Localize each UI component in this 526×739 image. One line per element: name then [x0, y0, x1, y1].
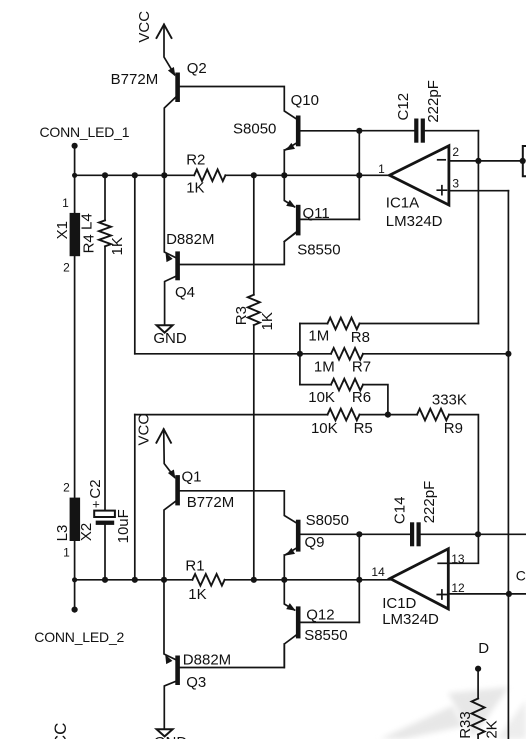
node CONN_LED_1: [40, 124, 130, 213]
ground GND (Q3 collector): [154, 729, 188, 739]
capacitor C12 222pF: [359, 80, 478, 143]
label Q2: [187, 60, 207, 77]
wire pin13 to C14 row: [448, 534, 478, 563]
junction dots on bottom bus: [72, 577, 362, 583]
wire R8/R6 left column: [299, 324, 301, 385]
wire Q10 base link column: [356, 128, 362, 220]
svg-text:12: 12: [451, 581, 465, 595]
svg-text:1: 1: [63, 545, 70, 559]
resistor R2 1K: [186, 152, 225, 197]
label IC1A LM324D: [386, 194, 443, 229]
svg-text:1K: 1K: [109, 237, 126, 255]
pin 3 (IC1A +): [452, 176, 459, 190]
wire pin3 row: [449, 190, 509, 192]
transistor Q10 (S8050 NPN): [284, 116, 359, 176]
connector (right edge, pin2 net): [523, 146, 526, 176]
svg-text:S8550: S8550: [304, 627, 347, 644]
transistor Q3 (D882M NPN): [164, 580, 284, 729]
svg-text:2: 2: [63, 481, 70, 495]
ground GND (Q4 collector): [153, 325, 187, 347]
svg-text:R5: R5: [354, 420, 373, 437]
svg-text:Q9: Q9: [305, 534, 325, 551]
label D882M (Q4): [166, 231, 214, 248]
svg-text:Q3: Q3: [186, 674, 206, 691]
wire C12 to R8 column: [477, 131, 479, 324]
wire Q2 base to Q10 collector: [180, 87, 296, 119]
svg-text:1M: 1M: [308, 328, 329, 345]
pin 14 (IC1D out): [371, 565, 385, 579]
svg-text:14: 14: [371, 565, 385, 579]
svg-text:R3: R3: [233, 306, 250, 325]
wire R7 row: [135, 351, 512, 357]
svg-text:1: 1: [378, 162, 385, 176]
svg-text:CONN_LED_1: CONN_LED_1: [40, 124, 130, 140]
svg-text:10K: 10K: [311, 420, 338, 437]
label B772M (Q1): [187, 494, 235, 511]
svg-text:IC1D: IC1D: [382, 595, 416, 612]
svg-text:Q2: Q2: [187, 60, 207, 77]
transistor Q12 (S8550 PNP): [284, 580, 359, 668]
transistor Q2 (B772M PNP): [164, 67, 180, 175]
label S8550 (Q11): [297, 242, 340, 259]
svg-text:VCC: VCC: [135, 414, 152, 446]
net label C: [516, 568, 526, 584]
svg-text:S8050: S8050: [306, 512, 349, 529]
svg-text:X2: X2: [78, 523, 95, 541]
resistor R7 1M: [314, 348, 371, 376]
svg-text:S8550: S8550: [297, 242, 340, 259]
svg-text:GND: GND: [154, 734, 188, 739]
capacitor C14 222pF: [359, 481, 526, 547]
svg-text:R6: R6: [352, 389, 371, 406]
svg-text:B772M: B772M: [111, 71, 159, 88]
pin 2 (IC1A -): [452, 145, 459, 159]
capacitor C2 10uF (polarized): [87, 479, 132, 579]
svg-text:L3: L3: [54, 525, 71, 542]
label Q3: [186, 674, 206, 691]
svg-text:C12: C12: [395, 93, 412, 121]
op-amp U IC1D LM324D: [390, 549, 448, 609]
svg-text:2K: 2K: [483, 720, 500, 738]
pin 12 (IC1D +): [451, 581, 465, 595]
connector X2 (L3): [54, 481, 95, 560]
label S8050 (Q10): [233, 120, 276, 137]
power VCC (lower): [135, 414, 174, 477]
svg-text:1M: 1M: [314, 359, 335, 376]
resistor R9 333K: [388, 391, 479, 534]
resistor R1 1K: [185, 558, 224, 604]
wire link column (R5 row to bottom bus): [134, 415, 136, 580]
label Q4: [175, 284, 195, 301]
svg-text:10K: 10K: [308, 389, 335, 406]
label Q1: [182, 469, 202, 486]
wire Q9 base link column: [356, 531, 362, 622]
svg-text:Q11: Q11: [303, 205, 330, 222]
pin 13 (IC1D -): [451, 552, 465, 566]
wire bottom bus (net at y=580): [75, 579, 390, 581]
svg-text:D882M: D882M: [183, 652, 231, 669]
svg-text:L4: L4: [79, 213, 96, 230]
svg-text:1: 1: [62, 196, 69, 210]
resistor R4 1K: [80, 175, 126, 510]
connector X1 (L4): [54, 196, 96, 274]
label B772M (Q2): [111, 71, 159, 88]
svg-text:X1: X1: [54, 221, 71, 239]
svg-text:LM324D: LM324D: [382, 611, 439, 628]
svg-text:R8: R8: [351, 329, 370, 346]
svg-text:C: C: [516, 568, 526, 584]
svg-text:R7: R7: [352, 359, 371, 376]
svg-text:VCC: VCC: [51, 723, 70, 739]
label Q12: [306, 606, 334, 623]
svg-text:333K: 333K: [432, 391, 467, 408]
label D882M (Q3): [183, 652, 231, 669]
svg-text:GND: GND: [153, 330, 187, 347]
svg-text:222pF: 222pF: [425, 80, 442, 123]
wire pin12 row: [448, 591, 526, 597]
svg-text:C2: C2: [87, 479, 104, 498]
svg-text:B772M: B772M: [187, 494, 235, 511]
op-amp U IC1A LM324D: [390, 146, 449, 205]
transistor Q9 (S8050 NPN): [284, 520, 359, 580]
node D: [475, 640, 489, 698]
pin 1 (IC1A out): [378, 162, 385, 176]
label IC1D LM324D: [382, 595, 439, 628]
svg-text:R4: R4: [80, 234, 97, 253]
svg-text:R9: R9: [444, 420, 463, 437]
resistor R8 1M: [300, 318, 479, 346]
junction dots on top bus: [72, 172, 362, 178]
svg-text:222pF: 222pF: [421, 481, 438, 524]
wire X1 to X2: [74, 256, 76, 497]
svg-text:2: 2: [452, 145, 459, 159]
svg-text:LM324D: LM324D: [386, 213, 443, 230]
label S8550 (Q12): [304, 627, 347, 644]
resistor R6 10K: [300, 379, 388, 415]
label Q10: [291, 92, 319, 109]
resistor R33 2K: [457, 699, 501, 739]
svg-text:2: 2: [63, 260, 70, 274]
wire Q1 base to Q9 collector: [180, 491, 296, 523]
node CONN_LED_2: [34, 541, 124, 645]
svg-text:Q1: Q1: [182, 469, 202, 486]
svg-text:R33: R33: [457, 711, 474, 739]
label Q11: [303, 205, 330, 222]
svg-text:3: 3: [452, 176, 459, 190]
svg-text:Q10: Q10: [291, 92, 319, 109]
resistor R5 10K: [135, 409, 391, 437]
svg-text:10uF: 10uF: [115, 509, 132, 543]
label Q9: [305, 534, 325, 551]
svg-text:D: D: [478, 640, 489, 657]
transistor Q4 (D882M NPN): [164, 175, 295, 325]
wire pin2 row: [449, 158, 526, 164]
svg-text:1K: 1K: [186, 179, 204, 196]
svg-text:D882M: D882M: [166, 231, 214, 248]
resistor R3 1K: [233, 175, 276, 580]
svg-text:IC1A: IC1A: [386, 194, 419, 211]
power VCC (bottom-left, cut off): [51, 723, 70, 739]
svg-text:R2: R2: [186, 152, 205, 169]
wire pin3/R7 column (to bottom): [507, 191, 509, 739]
wire top bus (net at y=175): [75, 174, 390, 176]
transistor Q11 (S8550 PNP): [284, 175, 359, 241]
power VCC (top): [136, 11, 175, 75]
svg-text:C14: C14: [392, 497, 409, 525]
transistor Q1 (B772M PNP): [164, 470, 180, 580]
svg-text:Q4: Q4: [175, 284, 195, 301]
label S8050 (Q9): [306, 512, 349, 529]
svg-text:VCC: VCC: [136, 11, 153, 43]
svg-text:1K: 1K: [259, 312, 276, 330]
svg-text:CONN_LED_2: CONN_LED_2: [34, 629, 124, 645]
svg-text:S8050: S8050: [233, 120, 276, 137]
wire link column to R7 row: [134, 175, 136, 353]
svg-text:Q12: Q12: [306, 606, 334, 623]
svg-text:1K: 1K: [188, 586, 206, 603]
svg-text:R1: R1: [185, 558, 204, 575]
